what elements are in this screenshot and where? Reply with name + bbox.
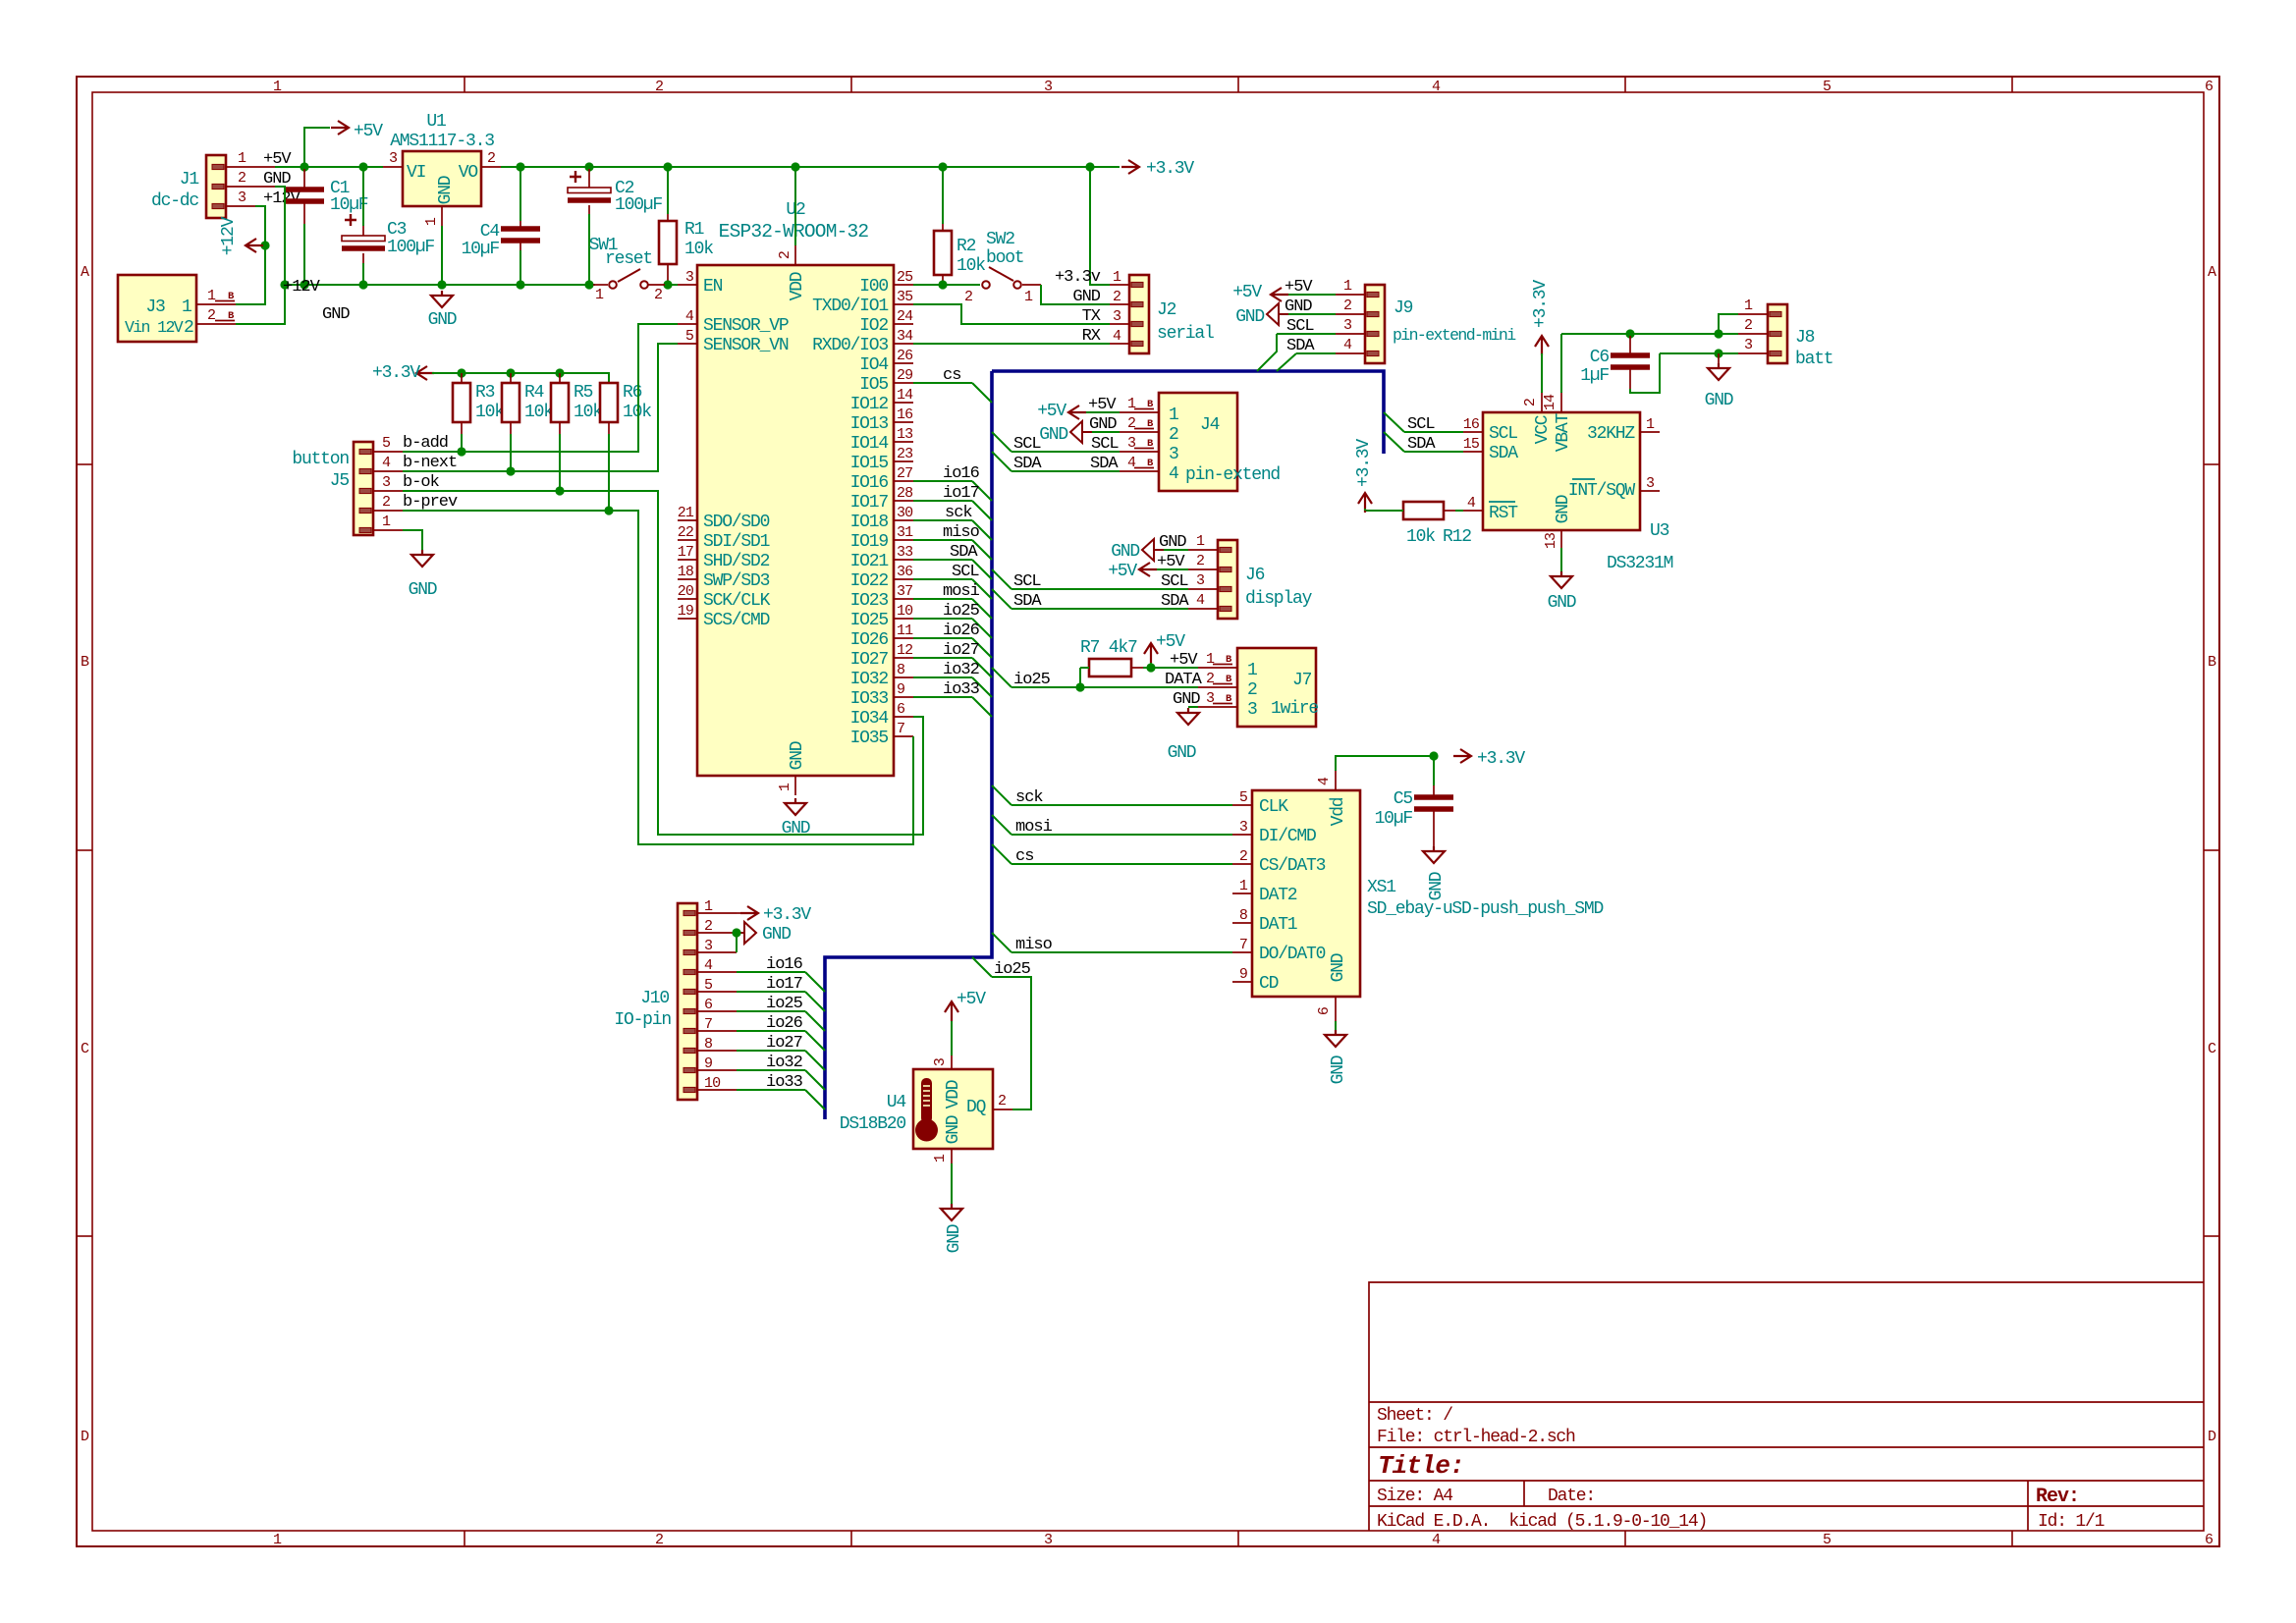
wire io33 from U2 [913,696,972,698]
svg-text:io26: io26 [766,1014,803,1033]
svg-text:EN: EN [703,277,723,297]
power +5V arrow at R7 [1144,643,1158,663]
svg-text:1: 1 [1196,533,1205,550]
pin 3 of J10 [697,951,737,953]
pin 3 VDD of U4 [951,1055,953,1069]
svg-text:IO19: IO19 [850,532,889,552]
svg-text:A: A [81,264,89,281]
svg-text:29: 29 [897,367,912,384]
svg-text:4: 4 [1169,464,1178,484]
svg-text:IO15: IO15 [850,454,889,473]
svg-text:+3.3V: +3.3V [1354,439,1374,487]
svg-text:ESP32-WROOM-32: ESP32-WROOM-32 [719,221,869,243]
svg-text:4: 4 [1467,495,1476,512]
ground symbol under U3 [1560,548,1562,573]
junction 1660,340 [1625,329,1634,338]
bus entry at 550 [972,540,992,560]
svg-text:3: 3 [1206,690,1215,707]
svg-text:37: 37 [897,583,912,600]
svg-text:34: 34 [897,328,913,345]
svg-text:SD_ebay-uSD-push_push_SMD: SD_ebay-uSD-push_push_SMD [1367,899,1603,919]
svg-text:IO13: IO13 [850,414,889,434]
connector J5 buttons [354,442,373,535]
svg-text:J6: J6 [1245,566,1265,585]
resistor R7 [1089,659,1131,676]
svg-text:C4: C4 [480,222,500,242]
pin 2 CS/DAT3 of XS1 [1232,863,1252,865]
pin 16 SCL of U3 [1463,431,1483,433]
wire VBAT down [1560,334,1562,393]
wire SDA from U2 [913,559,972,561]
rtc U3 DS3231M [1483,412,1640,530]
svg-text:GND: GND [762,925,791,945]
svg-text:io17: io17 [766,975,802,994]
pin 4 RST of U3 [1463,510,1483,512]
svg-text:SCL: SCL [952,563,979,581]
svg-text:16: 16 [897,406,913,423]
svg-text:21: 21 [678,505,694,521]
ground symbol under U1 [431,291,453,307]
svg-text:GND: GND [1111,542,1139,562]
pin 3 of J1 [226,205,255,207]
svg-text:D: D [81,1429,89,1445]
svg-text:Rev:: Rev: [2036,1486,2079,1508]
svg-text:3: 3 [1113,308,1121,325]
svg-text:GND: GND [322,305,350,324]
pin 13 IO14 of U2 [894,441,913,443]
svg-text:SDO/SD0: SDO/SD0 [703,513,770,532]
pin 2 of J1 [226,186,275,188]
wire SDA to U3 [1404,451,1463,453]
svg-text:U3: U3 [1650,521,1669,541]
svg-text:2: 2 [777,251,793,259]
svg-text:IO16: IO16 [850,473,889,493]
svg-text:4: 4 [1196,592,1205,609]
wire C6 to J8.3 [1660,352,1738,354]
svg-text:2: 2 [1206,671,1214,687]
capacitor C1 [285,187,324,192]
svg-text:IO2: IO2 [859,316,888,336]
svg-text:GND: GND [428,310,457,330]
svg-text:2: 2 [654,287,662,303]
svg-text:3: 3 [1127,435,1136,452]
pin 33 IO21 of U2 [894,559,913,561]
svg-text:File: ctrl-head-2.sch: File: ctrl-head-2.sch [1377,1428,1575,1447]
svg-text:10µF: 10µF [330,195,368,215]
svg-text:io32: io32 [766,1054,802,1072]
pin 1 of J5 [373,529,403,531]
wire io17 from J10 [737,991,805,993]
bus entry at 570 [972,560,992,579]
svg-text:+3.3V: +3.3V [1477,749,1525,769]
bus entry at 670 [972,658,992,677]
wire J1.1 to +5V rail [275,166,383,168]
pin 3 EN of U2 [678,284,697,286]
svg-text:SDA: SDA [1489,444,1518,463]
pin 1 of J10 [697,912,737,914]
pin 13 GND of U3 [1560,530,1562,548]
svg-text:2: 2 [207,307,215,324]
ground symbol under C5 [1423,846,1445,863]
pin 1 of J1 [226,166,275,168]
pin 1 GND of U4 [951,1149,953,1163]
svg-text:8: 8 [704,1036,713,1053]
svg-text:1: 1 [382,514,391,530]
pin 1 GND of U1 [441,206,443,226]
svg-text:GND: GND [1168,743,1196,763]
junction 570,500 [555,486,564,495]
pin 9 CD of XS1 [1232,981,1252,983]
junction 310,290 [300,280,308,289]
pin 34 RXD0/IO3 of U2 [894,343,913,345]
pin 3 of J6 [1188,588,1218,590]
pin 1 of J4 [1120,411,1159,413]
svg-text:3: 3 [1044,79,1053,95]
svg-text:10: 10 [897,603,913,620]
svg-text:R4: R4 [524,383,544,403]
junction at 370,170 [358,162,367,171]
svg-text:batt: batt [1795,350,1832,369]
switch SW2 boot [982,281,990,289]
wire J1.2 GND down [236,187,285,324]
pin 3 VI of U1 [383,166,403,168]
wire io32 from U2 [913,676,972,678]
bus entry at 630 [972,619,992,638]
svg-text:4: 4 [382,455,391,471]
svg-text:VI: VI [407,163,426,183]
svg-text:2: 2 [1522,399,1539,406]
svg-text:IO34: IO34 [850,709,889,729]
svg-text:6: 6 [704,997,713,1013]
svg-text:boot: boot [986,248,1023,268]
svg-text:C3: C3 [387,220,407,240]
svg-text:3: 3 [1239,819,1248,836]
svg-text:C6: C6 [1590,348,1610,367]
connector J2 serial [1129,275,1149,353]
svg-text:GND: GND [1554,495,1573,523]
svg-text:2: 2 [382,494,390,511]
junction 810,170 [791,162,799,171]
bus entry io25 J10 [805,1011,825,1031]
svg-text:10k: 10k [475,403,504,422]
svg-text:+3.3v: +3.3v [1055,268,1101,287]
svg-text:SDA: SDA [950,543,978,562]
pin 1 of J6 [1188,549,1218,551]
svg-text:J2: J2 [1157,300,1176,320]
bus entry at 510 [972,501,992,520]
wire miso from U2 [913,539,972,541]
power +5V arrow at U4 [945,1001,958,1021]
svg-text:4: 4 [1432,1532,1441,1548]
pin 9 IO33 of U2 [894,696,913,698]
svg-text:32KHZ: 32KHZ [1587,424,1635,444]
svg-text:IO-pin: IO-pin [614,1010,671,1030]
wire RXD0 to J2 RX [913,343,1110,345]
svg-text:10k: 10k [623,403,651,422]
power +3.3V arrow at U3 VCC [1535,336,1549,355]
pin 1 GND of U2 [794,776,796,795]
svg-text:6: 6 [1316,1006,1333,1015]
svg-text:VDD: VDD [788,272,807,300]
svg-text:33: 33 [897,544,913,561]
svg-text:DQ: DQ [966,1098,986,1117]
pin 5 SENSOR_VN of U2 [678,343,697,345]
svg-text:3: 3 [704,938,713,954]
resistor R1 [659,221,677,264]
svg-text:1: 1 [238,150,246,167]
svg-text:1: 1 [595,287,604,303]
wire I00 to SW2 [913,284,980,286]
svg-text:sck: sck [1015,788,1043,807]
pin 7 DO/DAT0 of XS1 [1232,951,1252,953]
svg-text:DAT1: DAT1 [1259,915,1297,935]
svg-text:+3.3V: +3.3V [1146,159,1194,179]
svg-text:SDA: SDA [1286,337,1315,355]
svg-text:3: 3 [1196,572,1205,589]
wire U4 GND down [951,1163,953,1204]
pin 1 32KHZ of U3 [1640,431,1660,433]
wire SCL to U3 [1404,431,1463,433]
wire 3.3V pullup rail [432,373,609,383]
svg-text:+5V: +5V [1232,283,1262,302]
svg-text:1: 1 [207,288,216,304]
connector J6 display [1218,540,1237,619]
svg-text:22: 22 [678,524,693,541]
wire io25 from U2 [913,618,972,620]
svg-text:3: 3 [685,269,694,286]
svg-text:3: 3 [1044,1532,1053,1548]
svg-text:GND: GND [1285,298,1312,316]
svg-text:10k: 10k [574,403,602,422]
wire io17 from U2 [913,500,972,502]
svg-text:3: 3 [1646,475,1655,492]
svg-text:display: display [1245,589,1313,609]
svg-text:SENSOR_VN: SENSOR_VN [703,336,789,355]
junction 520,480 [506,466,515,475]
svg-text:2: 2 [1169,425,1178,445]
power +3.3V arrow at J10.1 [737,912,742,914]
wire b-ok to IO34 [403,491,923,835]
svg-text:+3.3V: +3.3V [372,363,420,383]
power +3.3V arrow at XS1 [1453,749,1471,763]
pin 1 DAT2 of XS1 [1232,893,1252,894]
svg-text:10k: 10k [957,256,985,276]
svg-text:1: 1 [1646,416,1655,433]
svg-text:GND: GND [1159,533,1186,552]
pin 4 of J5 [373,470,403,472]
pin 4 of J10 [697,971,737,973]
svg-text:IO32: IO32 [850,670,889,689]
svg-text:+3.3V: +3.3V [1531,280,1551,328]
svg-text:A: A [2208,264,2216,281]
wire SDA to J4.4 [1011,470,1120,472]
junction 680,290 [663,280,672,289]
pin 7 of J10 [697,1030,737,1032]
svg-text:35: 35 [897,289,913,305]
pin 2 of J6 [1188,568,1218,570]
svg-text:U4: U4 [887,1093,906,1112]
pin 2 of J7 [1198,686,1237,688]
wire mosi from U2 [913,598,972,600]
svg-text:25: 25 [897,269,913,286]
svg-text:17: 17 [678,544,693,561]
svg-text:io33: io33 [766,1073,803,1092]
svg-text:2: 2 [704,918,712,935]
svg-text:SDI/SD1: SDI/SD1 [703,532,770,552]
svg-text:4: 4 [1432,79,1441,95]
svg-text:XS1: XS1 [1367,878,1395,897]
wire SW1 to EN [670,284,678,286]
svg-text:IO23: IO23 [850,591,889,611]
svg-text:GND: GND [1039,425,1067,445]
pin 30 IO18 of U2 [894,519,913,521]
svg-text:RST: RST [1489,504,1518,523]
svg-text:+5V: +5V [354,122,383,141]
svg-text:19: 19 [678,603,693,620]
svg-text:5: 5 [685,328,694,345]
wire J10.3 to J10.2 [736,933,738,952]
pin 9 of J10 [697,1069,737,1071]
svg-text:IO18: IO18 [850,513,889,532]
pin 10 of J10 [697,1089,737,1091]
svg-text:+5V: +5V [1156,632,1185,652]
pin 3 of J8 [1738,352,1768,354]
svg-text:dc-dc: dc-dc [151,191,198,211]
svg-text:3: 3 [238,189,246,206]
bus entry mosi XS1 [992,815,1011,835]
svg-text:1: 1 [932,1154,949,1163]
svg-text:10µF: 10µF [1375,809,1413,829]
junction 1172,680 [1146,663,1155,672]
pin 4 of J9 [1336,352,1365,354]
svg-text:2: 2 [1744,317,1752,334]
svg-text:cs: cs [943,366,960,385]
wire cs to CS/DAT3 [1011,863,1232,865]
svg-text:GND: GND [1235,307,1264,327]
pin 3 of J2 [1110,323,1129,325]
svg-text:10: 10 [704,1075,721,1092]
svg-text:1: 1 [1206,651,1215,668]
svg-text:2: 2 [655,1532,663,1548]
wire io16 from U2 [913,480,972,482]
ground symbol under J7.3 [1177,708,1199,725]
junction 270,250 [260,241,269,249]
wire b-prev to IO35 [403,511,913,844]
pin 29 IO5 of U2 [894,382,913,384]
svg-text:SCL: SCL [1013,572,1041,591]
junction 1750,360 [1714,349,1722,357]
svg-text:2: 2 [1127,415,1135,432]
pin 10 IO25 of U2 [894,618,913,620]
svg-text:DS18B20: DS18B20 [840,1114,906,1134]
svg-text:Vdd: Vdd [1329,797,1348,826]
wire miso to DO/DAT0 [1011,951,1232,953]
wire SDA to J6.4 [1011,608,1188,610]
svg-text:4: 4 [1113,328,1121,345]
svg-text:14: 14 [897,387,913,404]
svg-text:+5V: +5V [1157,553,1185,571]
svg-text:1: 1 [1744,298,1753,314]
svg-text:2: 2 [964,289,972,305]
svg-text:2: 2 [1196,553,1204,569]
svg-text:IO27: IO27 [850,650,889,670]
pin 3 DI/CMD of XS1 [1232,834,1252,836]
wire io27 from U2 [913,657,972,659]
svg-text:RX: RX [1082,327,1101,346]
svg-text:31: 31 [897,524,913,541]
pin 26 IO4 of U2 [894,362,913,364]
capacitor C2 [588,169,590,188]
wire mosi to DI/CMD [1011,834,1232,836]
svg-text:3: 3 [1744,337,1753,353]
svg-text:pin-extend-mini: pin-extend-mini [1393,326,1516,345]
junction 530,170 [516,162,524,171]
power +3.3V arrow for pullups [416,366,434,380]
svg-text:2: 2 [184,318,193,338]
pin 1 of J8 [1738,313,1768,315]
svg-text:10µF: 10µF [462,240,500,259]
wire +5V to J7.1 [1151,663,1198,668]
svg-text:2: 2 [1113,289,1121,305]
svg-text:VBAT: VBAT [1554,412,1573,452]
wire io33 from J10 [737,1089,805,1091]
svg-text:4: 4 [1127,455,1136,471]
bus entry at 530 [972,520,992,540]
svg-text:J9: J9 [1394,298,1413,318]
connector J8 batt [1768,304,1787,363]
svg-text:SWP/SD3: SWP/SD3 [703,571,770,591]
thermometer icon [921,1078,932,1123]
pin 37 IO23 of U2 [894,598,913,600]
temp sensor U4 DS18B20 [913,1069,993,1149]
svg-text:2: 2 [238,170,246,187]
svg-text:3: 3 [1169,445,1178,464]
junction 1460,770 [1429,751,1438,760]
wire +3.3v to J2 pin1 [1090,167,1110,285]
svg-text:2: 2 [1343,298,1351,314]
svg-text:CLK: CLK [1259,797,1288,817]
resistor R5 [551,383,569,422]
svg-text:io32: io32 [943,661,979,679]
svg-text:b-next: b-next [403,454,457,472]
bus entry SDA J4 [992,452,1011,471]
svg-text:sck: sck [945,504,972,522]
ground rail wire [285,284,595,286]
svg-text:13: 13 [1543,532,1559,549]
wire io16 from J10 [737,971,805,973]
bus entry at 490 [972,481,992,501]
svg-text:10k: 10k [524,403,553,422]
svg-text:8: 8 [897,662,905,678]
svg-text:SCS/CMD: SCS/CMD [703,611,770,630]
wire +3.3V rail from VO [501,166,1120,168]
svg-text:DO/DAT0: DO/DAT0 [1259,945,1326,964]
connector J3 [118,275,196,342]
wire SCL to J6.3 [1011,588,1188,590]
svg-text:IO5: IO5 [859,375,888,395]
svg-text:15: 15 [1463,436,1480,453]
bus entry at 590 [972,579,992,599]
bus entry at 650 [972,638,992,658]
pin 4 of J6 [1188,608,1218,610]
pin 1 of J7 [1198,667,1237,669]
switch SW1 reset [593,284,608,286]
svg-text:8: 8 [1239,907,1248,924]
svg-text:R12: R12 [1443,527,1471,547]
svg-text:1: 1 [1239,878,1248,894]
pin 15 SDA of U3 [1463,451,1483,453]
svg-text:io27: io27 [766,1034,802,1053]
